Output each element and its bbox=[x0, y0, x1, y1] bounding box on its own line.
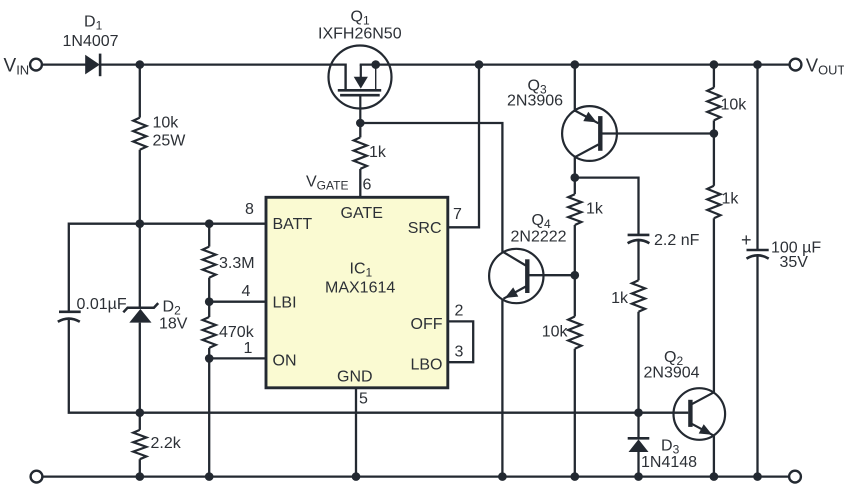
svg-text:GATE: GATE bbox=[341, 205, 383, 222]
wire Q2 base node to D3 bbox=[637, 413, 639, 438]
diode D3 1N4148 bbox=[628, 438, 650, 452]
wire Q3 base node to 1k right bbox=[713, 134, 715, 186]
wire SRC pin to top rail bbox=[448, 65, 479, 228]
wire 100uF to bottom rail bbox=[756, 256, 758, 476]
wire lower node to 2.2k bbox=[139, 413, 141, 430]
node Q3 collector bbox=[571, 173, 580, 182]
node ON bbox=[205, 354, 214, 363]
resistor 10k lower bbox=[568, 317, 581, 349]
svg-text:0.01µF: 0.01µF bbox=[77, 296, 127, 313]
svg-text:2N3906: 2N3906 bbox=[507, 93, 563, 110]
diode D1 bbox=[85, 54, 100, 77]
node bottom rail GND bbox=[352, 472, 361, 481]
zener diode D2 bbox=[123, 303, 158, 323]
wire LBI pin bbox=[209, 301, 266, 303]
node bottom rail 100uF bbox=[753, 472, 762, 481]
svg-text:1k: 1k bbox=[369, 144, 387, 161]
wire 10k25W to BATT node bbox=[139, 150, 141, 224]
bottom-right terminal bbox=[789, 471, 801, 483]
wire 10k right to Q3 base node bbox=[713, 120, 715, 133]
node LBI bbox=[205, 297, 214, 306]
svg-text:1N4148: 1N4148 bbox=[641, 454, 697, 471]
svg-text:+: + bbox=[741, 230, 752, 250]
node Q2 base bbox=[634, 408, 643, 417]
wire 3.3M to LBI node bbox=[208, 278, 210, 302]
wire 470k to ON node bbox=[208, 348, 210, 359]
svg-text:1N4007: 1N4007 bbox=[63, 33, 119, 50]
mosfet Q1 bbox=[329, 46, 392, 124]
transistor Q4 2N2222 bbox=[489, 249, 543, 303]
svg-text:D1: D1 bbox=[84, 14, 103, 33]
svg-text:1k: 1k bbox=[586, 201, 604, 218]
wire 2.2nF to 1k bbox=[637, 241, 639, 280]
svg-text:7: 7 bbox=[453, 206, 462, 223]
wire LBI node to 470k bbox=[208, 302, 210, 317]
wire D1 to Q1 drain bbox=[100, 63, 346, 65]
wire 1k to GATE pin 6 bbox=[359, 169, 361, 198]
svg-text:2: 2 bbox=[455, 303, 464, 320]
node Q4 base bbox=[571, 271, 580, 280]
IC U1 MAX1614 body bbox=[266, 197, 448, 387]
node bottom rail 470k bbox=[205, 472, 214, 481]
svg-text:2.2k: 2.2k bbox=[151, 435, 182, 452]
node top rail at 10k25W bbox=[136, 60, 145, 69]
wire Q2 emitter to bottom rail bbox=[713, 435, 715, 477]
svg-text:5: 5 bbox=[359, 391, 368, 408]
node bottom rail D3 bbox=[634, 472, 643, 481]
wire ON node to bottom rail bbox=[208, 358, 210, 476]
svg-text:2N2222: 2N2222 bbox=[511, 229, 567, 246]
svg-text:2N3904: 2N3904 bbox=[644, 365, 700, 382]
svg-text:10k: 10k bbox=[542, 324, 569, 341]
wire 2.2k to bottom rail bbox=[139, 459, 141, 476]
svg-text:VGATE: VGATE bbox=[306, 174, 348, 193]
svg-text:25W: 25W bbox=[153, 133, 187, 150]
resistor 1k right bbox=[707, 186, 720, 219]
svg-text:BATT: BATT bbox=[273, 216, 313, 233]
wire D3 to bottom rail bbox=[637, 452, 639, 477]
resistor 1k gate bbox=[354, 137, 367, 169]
wire Q3 base bbox=[603, 132, 714, 134]
wire gate node to 1k bbox=[359, 123, 361, 137]
transistor Q3 2N3906 bbox=[562, 106, 617, 161]
svg-text:VIN: VIN bbox=[4, 56, 30, 78]
svg-text:6: 6 bbox=[363, 177, 372, 194]
svg-text:SRC: SRC bbox=[408, 220, 442, 237]
svg-text:470k: 470k bbox=[219, 324, 255, 341]
wire Q2 base segment bbox=[639, 412, 689, 414]
wire Q1 to VOUT bbox=[376, 63, 790, 65]
resistor 1k mid bbox=[632, 280, 645, 312]
output terminal VOUT bbox=[790, 59, 802, 71]
svg-text:4: 4 bbox=[242, 283, 251, 300]
node bottom rail 2.2k bbox=[136, 472, 145, 481]
wire BATT pin bbox=[69, 224, 266, 312]
wire top rail to 100uF bbox=[756, 65, 758, 250]
node BATT wire at 3.3M bbox=[205, 219, 214, 228]
svg-text:VOUT: VOUT bbox=[806, 55, 844, 78]
svg-text:3: 3 bbox=[455, 344, 464, 361]
svg-text:LBO: LBO bbox=[410, 357, 442, 374]
svg-text:1k: 1k bbox=[722, 191, 740, 208]
svg-text:1: 1 bbox=[244, 340, 253, 357]
svg-text:1k: 1k bbox=[611, 290, 629, 307]
wire OFF-LBO loop bbox=[448, 321, 473, 362]
wire Q3 collector to 2.2nF bbox=[575, 178, 639, 235]
svg-text:LBI: LBI bbox=[273, 295, 297, 312]
wire ON pin bbox=[209, 357, 266, 359]
svg-text:MAX1614: MAX1614 bbox=[325, 280, 395, 297]
wire 1k to Q2 base node bbox=[637, 312, 639, 413]
bottom-left terminal bbox=[31, 471, 43, 483]
svg-text:3.3M: 3.3M bbox=[219, 255, 255, 272]
node Q3 base right bbox=[710, 129, 719, 138]
svg-text:ON: ON bbox=[273, 353, 297, 370]
wire gate node to Q4 collector bbox=[360, 123, 502, 252]
node top rail SRC branch bbox=[475, 60, 484, 69]
resistor 1k Q3 bbox=[568, 194, 581, 225]
wire 1k to Q4 base node bbox=[574, 225, 576, 275]
node BATT wire at 10k25W bbox=[136, 219, 145, 228]
node Q1 source stub bbox=[371, 60, 380, 69]
svg-text:OFF: OFF bbox=[411, 316, 443, 333]
svg-text:35V: 35V bbox=[780, 254, 809, 271]
capacitor 2.2nF bbox=[628, 235, 650, 243]
capacitor 100uF bbox=[747, 250, 769, 259]
node bottom rail Q2 emitter bbox=[710, 472, 719, 481]
wire top rail to 10k25W bbox=[139, 65, 141, 118]
transistor Q2 2N3904 bbox=[674, 388, 726, 440]
wire 10k to bottom rail bbox=[574, 349, 576, 477]
svg-text:IXFH26N50: IXFH26N50 bbox=[318, 26, 402, 43]
svg-text:10k: 10k bbox=[153, 115, 180, 132]
node top rail Q3 branch bbox=[571, 60, 580, 69]
wire D2 to lower node bbox=[139, 323, 141, 413]
wire Q4 base node to 10k bbox=[574, 275, 576, 316]
wire 0.01uF to lower wire bbox=[69, 320, 140, 413]
resistor 2.2k bbox=[133, 430, 146, 459]
wire BATT node to 3.3M bbox=[208, 224, 210, 247]
node top rail 10k branch bbox=[710, 60, 719, 69]
resistor 10k 25W bbox=[133, 118, 146, 150]
wire Q4 emitter to bottom rail bbox=[501, 299, 503, 477]
bottom rail wire bbox=[43, 475, 788, 477]
resistor 470k bbox=[203, 317, 216, 348]
node D2 bottom bbox=[136, 408, 145, 417]
capacitor 0.01uF bbox=[58, 312, 81, 322]
input terminal VIN bbox=[30, 59, 42, 71]
resistor 3.3M bbox=[203, 247, 216, 278]
node bottom rail 10k bbox=[571, 472, 580, 481]
svg-text:GND: GND bbox=[337, 369, 373, 386]
svg-text:8: 8 bbox=[245, 201, 254, 218]
svg-text:2.2 nF: 2.2 nF bbox=[654, 232, 700, 249]
wire D2 node to Q2 base bbox=[140, 412, 639, 414]
wire top rail to Q3 emitter bbox=[574, 65, 576, 112]
node top rail 100uF branch bbox=[753, 60, 762, 69]
node bottom rail Q4 emitter bbox=[498, 472, 507, 481]
wire 1k right to Q2 collector bbox=[713, 218, 715, 392]
resistor 10k right bbox=[707, 88, 720, 121]
node VGATE bbox=[356, 119, 365, 128]
wire top rail to 10k right bbox=[713, 65, 715, 88]
wire Q3 collector down bbox=[574, 156, 576, 195]
wire GND pin to bottom rail bbox=[355, 388, 357, 477]
wire Q4 base bbox=[530, 274, 575, 276]
wire BATT node to D2 bbox=[139, 224, 141, 308]
wire VIN to D1 bbox=[43, 63, 86, 65]
svg-text:10k: 10k bbox=[721, 97, 748, 114]
svg-text:18V: 18V bbox=[159, 316, 188, 333]
